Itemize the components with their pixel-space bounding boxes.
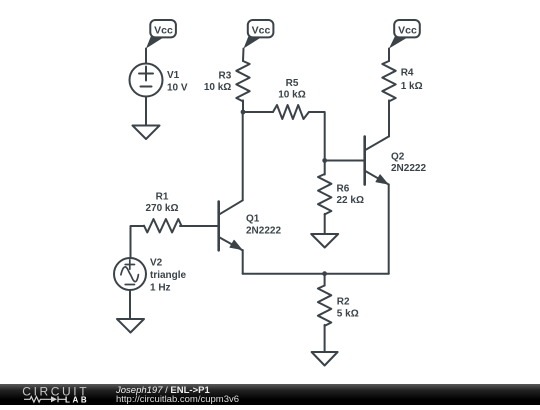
wire Q2 emitter down bbox=[388, 185, 390, 274]
wire Q1 collector to node A bbox=[242, 112, 244, 200]
svg-text:Vcc: Vcc bbox=[252, 24, 271, 36]
wire Vcc to R4 bbox=[388, 49, 390, 62]
wire node B to R6 bbox=[324, 161, 326, 175]
ground (R2) bbox=[312, 352, 338, 366]
svg-text:V2: V2 bbox=[150, 258, 163, 269]
wire node B to Q2 base bbox=[325, 160, 364, 162]
label R6 22 kΩ bbox=[337, 183, 364, 206]
wire R3 to node A bbox=[242, 100, 244, 112]
node A junction bbox=[241, 110, 246, 115]
voltage source V1 bbox=[130, 64, 163, 97]
svg-text:10 kΩ: 10 kΩ bbox=[278, 89, 305, 100]
wire R4 to Q2 collector bbox=[388, 100, 390, 136]
ground (V1) bbox=[133, 126, 160, 140]
label R2 5 kΩ bbox=[337, 297, 359, 320]
wire node C to R2 bbox=[324, 274, 326, 286]
footer title text bbox=[116, 386, 210, 395]
power flag Vcc (R4 branch) bbox=[389, 20, 420, 49]
power flag Vcc (R3 branch) bbox=[244, 20, 274, 49]
label V2 triangle 1 Hz bbox=[150, 258, 187, 294]
label V1 10 V bbox=[167, 70, 188, 93]
wire V2 to R1 bbox=[131, 226, 145, 258]
wire Vcc to R3 bbox=[242, 49, 245, 62]
svg-text:R5: R5 bbox=[286, 78, 299, 89]
label Q1 2N2222 bbox=[246, 214, 281, 237]
wire R2 to ground bbox=[324, 325, 326, 352]
power flag Vcc (V1 branch) bbox=[146, 20, 176, 49]
svg-text:R1: R1 bbox=[156, 191, 169, 202]
svg-text:R3: R3 bbox=[219, 70, 232, 81]
svg-text:Q2: Q2 bbox=[391, 151, 405, 162]
label R1 270 kΩ bbox=[145, 191, 178, 214]
svg-text:10 kΩ: 10 kΩ bbox=[204, 82, 231, 93]
wire emitter bus bbox=[243, 273, 389, 275]
resistor R4 bbox=[382, 61, 395, 101]
label R5 10 kΩ bbox=[278, 78, 305, 101]
resistor R5 bbox=[273, 105, 309, 119]
wire Q1 emitter down bbox=[242, 250, 244, 274]
svg-text:Vcc: Vcc bbox=[154, 24, 173, 36]
svg-text:22 kΩ: 22 kΩ bbox=[337, 195, 364, 206]
svg-text:1 Hz: 1 Hz bbox=[150, 283, 171, 294]
ground (R6) bbox=[311, 234, 338, 248]
svg-text:2N2222: 2N2222 bbox=[246, 225, 281, 236]
wire R1 to Q1 base bbox=[180, 225, 218, 227]
transistor Q2 bbox=[365, 137, 389, 185]
svg-text:270 kΩ: 270 kΩ bbox=[145, 203, 178, 214]
resistor R3 bbox=[236, 61, 249, 101]
wire Vcc to V1 bbox=[145, 49, 147, 65]
wire node A to R5 bbox=[243, 111, 273, 113]
svg-text:2N2222: 2N2222 bbox=[391, 163, 426, 174]
resistor R2 bbox=[318, 286, 331, 326]
resistor R1 bbox=[144, 219, 181, 232]
wire R6 to ground bbox=[324, 214, 326, 234]
label R3 10 kΩ bbox=[204, 70, 232, 93]
node C junction bbox=[322, 271, 327, 276]
transistor Q1 bbox=[219, 200, 243, 250]
svg-text:5 kΩ: 5 kΩ bbox=[337, 309, 359, 320]
voltage source V2 bbox=[114, 258, 146, 290]
wire V1 to ground bbox=[145, 97, 147, 126]
svg-text:V1: V1 bbox=[167, 70, 180, 81]
label Q2 2N2222 bbox=[391, 151, 426, 174]
label R4 1 kΩ bbox=[401, 68, 423, 93]
svg-text:R6: R6 bbox=[337, 183, 350, 194]
node B junction bbox=[322, 158, 327, 163]
footer bar bbox=[0, 384, 540, 405]
svg-text:Q1: Q1 bbox=[246, 214, 260, 225]
svg-text:10 V: 10 V bbox=[167, 82, 188, 93]
wire V2 to ground bbox=[129, 290, 131, 319]
svg-text:R4: R4 bbox=[401, 68, 414, 79]
svg-text:Vcc: Vcc bbox=[398, 24, 417, 36]
resistor R6 bbox=[318, 174, 331, 214]
svg-text:triangle: triangle bbox=[150, 270, 187, 281]
svg-text:R2: R2 bbox=[337, 297, 350, 308]
ground (V2) bbox=[117, 319, 144, 333]
svg-text:LAB: LAB bbox=[65, 396, 89, 405]
wire R5 to node B bbox=[309, 112, 325, 161]
svg-text:1 kΩ: 1 kΩ bbox=[401, 81, 423, 92]
CircuitLab logo bbox=[0, 384, 110, 405]
